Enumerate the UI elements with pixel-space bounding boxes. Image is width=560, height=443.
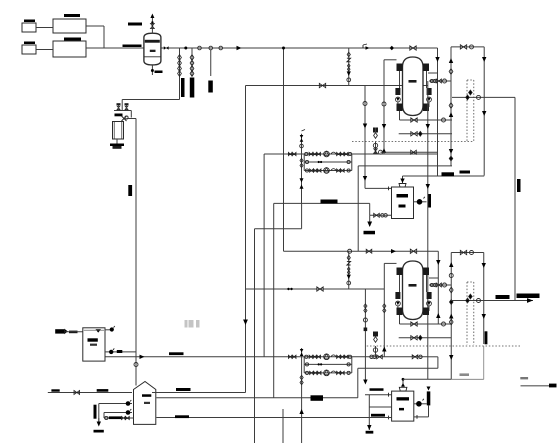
label at tank outlet — [117, 350, 123, 353]
wire main header y48 — [86, 47, 144, 49]
house left valve — [104, 417, 134, 419]
valve on y85.5 — [319, 83, 325, 87]
wire expansion line y99.5 — [122, 99, 179, 101]
safety valve stack A — [117, 103, 121, 105]
wire CH1 evaporator bottom line y120 — [399, 111, 401, 120]
label supply small — [496, 295, 510, 299]
label on y392.5 — [176, 388, 191, 391]
vertical label D1 — [181, 78, 185, 97]
dashed line y346 — [367, 345, 521, 347]
valve on line2 — [410, 249, 416, 253]
vertical label on loop2 leg — [485, 331, 488, 344]
valve stack S1 — [347, 52, 350, 57]
wire standpipe x136 — [135, 119, 137, 386]
wire tank outlet joins standpipe — [135, 352, 137, 357]
CH1 nozzle stubs — [399, 71, 401, 88]
expansion tank header — [114, 110, 131, 112]
heat exchanger HX1 — [392, 187, 414, 219]
tank T1 drain with valve — [151, 65, 153, 75]
wire boiler feed elbow — [402, 379, 404, 387]
boiler BL1 — [392, 391, 414, 421]
wire riser R4 x273.7 — [273, 203, 275, 397]
wire U1 to header — [86, 25, 104, 27]
wire bypass loop1 top y46.9 — [451, 46, 484, 48]
HX1 bottom stub valves — [370, 214, 392, 216]
wire main line2 y251.25 — [284, 250, 439, 252]
pump row1b y356.8 valves pump P3 — [288, 355, 292, 358]
valve mid line2 — [366, 249, 372, 253]
CH2 nozzle left-bottom — [397, 308, 403, 316]
CH1 pump left — [395, 88, 400, 95]
text 300kW — [460, 373, 470, 376]
drop D2 with valves — [191, 48, 193, 76]
boiler left stub3 tick — [388, 416, 390, 420]
dashed sensor loop CH1 — [466, 80, 468, 142]
ports right of group2 — [370, 355, 373, 358]
CH1 nozzle left-bottom — [397, 104, 403, 112]
gauge on standpipe — [134, 363, 138, 367]
wire riser R1 x245.5 — [245, 86, 247, 393]
wire CH2 condenser mid outlet y285 — [429, 284, 451, 286]
house left loop — [99, 403, 126, 405]
wire CH2 left frame — [384, 262, 396, 264]
valve on y289 — [317, 287, 323, 291]
wire boiler drain x369.3 — [368, 395, 370, 430]
CH1 pump right — [427, 88, 432, 95]
wire CH1 bottom line y133.8 — [399, 133, 452, 135]
wire B2-U2 — [36, 49, 53, 51]
drop D1 with valves — [179, 48, 181, 100]
wire condenser riser x427.8 — [427, 81, 429, 379]
CH2 nozzle stubs — [399, 275, 401, 292]
wire HX1 bottom feed y203.4 — [274, 202, 370, 204]
drain arrow to pit — [367, 222, 372, 228]
flow arrow on water header — [140, 355, 145, 359]
stack S2 below line2 — [348, 251, 350, 289]
wire riser R2 x254.5 — [254, 229, 256, 443]
box B1 (small source unit) — [22, 23, 36, 32]
pump row1 y154 valves and pump P1 — [288, 152, 292, 155]
label on y417.5 — [175, 415, 189, 418]
wire return y289 — [246, 288, 385, 290]
wire CH2 bottom line y324 — [399, 315, 401, 324]
wire CH2 condenser inlet elbow — [437, 251, 439, 278]
CH1 nozzle right-top — [423, 64, 429, 72]
wire house line y392.5 — [152, 392, 246, 394]
wire boiler bottom right elbow — [428, 405, 430, 417]
box U2 (large source unit) — [53, 41, 86, 57]
wire riser R3 x264.1 — [263, 154, 265, 357]
sensor junction diamond — [469, 90, 473, 95]
wire HX1 out y165.9 — [358, 165, 452, 167]
flow meter F1 — [363, 44, 367, 48]
vessel base drain — [110, 144, 124, 147]
label tap water B — [97, 389, 109, 392]
valve X1 with actuator — [122, 116, 127, 121]
dashed instrument line y141.5 — [352, 141, 474, 143]
wire drain stub x283 bottom — [282, 409, 284, 443]
wire chilled supply y85.5 — [246, 85, 428, 87]
drop D3 — [210, 50, 212, 76]
boiler feed drop x365.4 — [364, 289, 366, 382]
label on expansion tank — [115, 114, 123, 117]
vertical label D3 — [208, 81, 213, 93]
wire HX1 inlet drop x365 — [364, 86, 366, 189]
wire CH1 condenser mid outlet y81 — [429, 80, 451, 82]
vertical label beside standpipe — [128, 185, 132, 196]
vertical label on supply drop — [517, 179, 521, 192]
CH2 pump right — [427, 292, 432, 299]
wire bypass loop1 left leg x451 — [450, 47, 452, 166]
vertical label house loop — [94, 405, 97, 419]
faint note text — [185, 320, 188, 328]
filter stack FS1 — [375, 142, 377, 155]
CH2 nozzle right-top — [423, 268, 429, 276]
wire bypass loop2 left leg x451.25 — [450, 253, 452, 380]
label on header — [123, 45, 142, 48]
wire boiler loop y368.3 — [358, 367, 438, 369]
tank top right vent pump — [105, 329, 110, 331]
wire evaporator outlet y152.5 — [381, 151, 438, 153]
CH2 nozzle left-top — [397, 268, 403, 276]
pump row3 y170.5 and pump P2 — [304, 170, 352, 172]
wire bypass loop2 right leg x483.75 — [483, 253, 485, 345]
HX1 right stub with pump — [414, 201, 427, 203]
make-up water inlet arrow — [55, 329, 64, 333]
tank outlet pump — [105, 351, 136, 353]
label on HX1 feed thick — [442, 172, 455, 176]
water tank WT1 — [83, 328, 105, 361]
boiler top port — [399, 387, 407, 391]
filter stack FS2 — [375, 346, 377, 357]
junction stack x301.5 — [301, 134, 303, 204]
wire CH2 right drop — [437, 278, 439, 324]
label supply large — [517, 294, 540, 299]
safety valve stack B — [125, 103, 129, 105]
wire header out y97.4 — [452, 96, 515, 98]
label left of vent — [128, 23, 142, 26]
wire branch x283.5 — [283, 48, 285, 251]
wire HX1 feed y176 — [403, 175, 485, 177]
legend pipe sample — [520, 377, 528, 379]
wire CH1 condenser inlet elbow — [437, 48, 439, 176]
vertical label right of HX1 — [428, 194, 431, 208]
chiller CH2 vessel — [403, 261, 424, 320]
wire bypass loop1 right leg x484.2 — [483, 47, 485, 176]
label stub1 — [370, 388, 384, 391]
pump row2b y364.4 — [303, 357, 305, 373]
boiler right pump — [414, 403, 427, 405]
air separator tank T1 — [144, 33, 161, 65]
dashed label under loop — [109, 416, 122, 419]
wire water header y356.8 — [105, 356, 428, 358]
house drain — [98, 418, 100, 424]
wire B1-U1 — [36, 27, 53, 29]
junction diamond on header — [390, 46, 394, 50]
closed valve dots on y289 — [287, 288, 289, 290]
wire pump header y154 — [264, 153, 438, 155]
node J1 — [184, 47, 187, 50]
label tap water A — [51, 389, 59, 391]
HX1 drain — [369, 215, 371, 226]
port on line2 — [348, 249, 352, 253]
wire CH2 bottom line y337.8 — [399, 337, 452, 339]
wire bypass loop2 top y252.5 — [451, 252, 484, 254]
wire drop x358.2 to line2 — [357, 166, 359, 251]
house left pumps — [126, 403, 133, 405]
wire to standpipe — [127, 118, 137, 120]
pump row2 y162 standby — [303, 154, 305, 171]
boiler left stub1 — [365, 394, 392, 396]
wire jog x301.6 — [301, 203, 303, 228]
expansion vessel body — [113, 122, 124, 140]
flow arrow on header — [237, 46, 242, 50]
tank T1 vent pipe with valve and arrow — [151, 17, 153, 33]
flow arrow line2 — [391, 249, 396, 253]
label on HX1 feed thin — [460, 171, 471, 174]
wire header end drop — [437, 357, 439, 369]
instrument ports on header — [198, 46, 202, 50]
label boiler stub2 — [371, 414, 385, 417]
CH2 pump left — [395, 292, 400, 299]
dashed sensor loop CH2 — [466, 282, 468, 345]
label on y203.4 — [321, 200, 338, 204]
wire house line y397.8 — [156, 397, 357, 399]
thin branch bottom right — [483, 346, 485, 379]
wire CH1 left frame — [384, 59, 397, 61]
CH2 nozzle right-bottom — [423, 308, 429, 316]
wire house line y417.5 — [156, 417, 391, 419]
boiler left stub2 — [369, 406, 391, 408]
wire supply out y300.5 — [451, 300, 533, 302]
label on water header — [169, 352, 184, 355]
box B2 (small source unit) — [22, 45, 36, 54]
wire long supply drop x515 — [514, 97, 516, 300]
chiller CH1 vessel — [403, 57, 424, 116]
thick label on y397.8 — [311, 395, 324, 401]
house tank HT1 — [134, 382, 156, 425]
junction stack2 x301.6 — [301, 348, 303, 443]
HX1 top port — [399, 184, 406, 188]
valve V-h1 — [410, 46, 416, 50]
CH1 nozzle right-bottom — [423, 104, 429, 112]
vertical label right of boiler — [427, 391, 431, 405]
CH1 nozzle left-top — [397, 64, 403, 72]
wire branch x348.75 top — [348, 48, 350, 86]
pump row3b y372.9 pump P4 — [304, 372, 352, 374]
vertical label D2 — [190, 78, 195, 98]
box U1 (large source unit) — [53, 19, 86, 33]
wire tap water y392.5 — [48, 392, 132, 394]
